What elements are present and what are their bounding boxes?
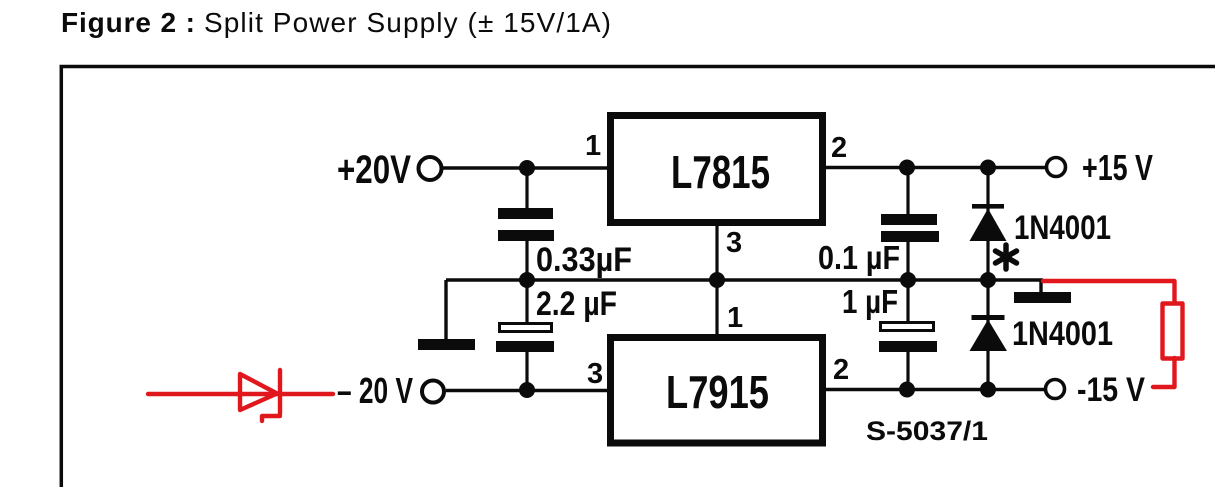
junction C1 / top rail <box>519 160 535 176</box>
wire diode D2 branch <box>986 280 989 390</box>
wire top rail left (+20V to pin 1) <box>443 166 607 169</box>
terminal -15V <box>1046 380 1065 399</box>
red annotation: protection diode symbol at -20V input <box>148 370 333 421</box>
svg-text:2: 2 <box>833 354 849 386</box>
wire C1 branch lower <box>525 241 528 280</box>
regulator U1 L7815 <box>611 116 823 223</box>
svg-text:L7815: L7815 <box>671 146 770 198</box>
ground bar right <box>1014 292 1071 303</box>
terminal +20V <box>419 157 442 180</box>
svg-text:2: 2 <box>831 132 847 164</box>
svg-text:1 µF: 1 µF <box>842 283 898 320</box>
svg-text:1N4001: 1N4001 <box>1012 315 1113 353</box>
capacitor C2 2.2uF polarized <box>496 324 554 353</box>
wire C1 branch upper <box>525 168 528 209</box>
svg-text:0.1 µF: 0.1 µF <box>818 239 900 276</box>
svg-text:2.2 µF: 2.2 µF <box>536 285 617 323</box>
terminal -20V <box>422 381 444 403</box>
svg-text:– 20 V: – 20 V <box>337 370 413 411</box>
wire ground rail left drop <box>444 280 447 340</box>
wire red horizontal <box>148 392 333 396</box>
wire red from ground node to resistor <box>1043 281 1175 302</box>
junction D2 / bottom rail <box>980 382 996 398</box>
diode D2 1N4001 <box>970 315 1008 351</box>
wire C2 branch upper <box>525 280 528 323</box>
wire C2 branch lower <box>525 352 528 390</box>
capacitor C3 0.1uF <box>881 214 939 242</box>
wire bottom rail left (-20V to pin 3) <box>446 389 607 392</box>
wire top rail right (pin 2 to +15V) <box>826 166 1046 169</box>
wire U1 pin 3 down to ground rail <box>715 226 718 280</box>
wire middle ground rail <box>446 278 1043 281</box>
junction C3 / top rail <box>899 160 915 176</box>
ground bar left <box>418 339 475 350</box>
wire C4 branch upper <box>906 280 909 322</box>
capacitor C4 1uF polarized <box>879 323 937 353</box>
wire diode D1 branch <box>986 168 989 281</box>
svg-text:+20V: +20V <box>337 148 411 192</box>
wire C4 branch lower <box>906 352 909 390</box>
svg-text:1: 1 <box>585 130 601 162</box>
diode D3 cathode foot hook <box>262 416 280 421</box>
wire red resistor to -15V <box>1153 358 1175 387</box>
svg-text:1: 1 <box>727 302 743 334</box>
wire C3 branch lower <box>906 242 909 280</box>
regulator U2 L7915 <box>611 338 823 444</box>
svg-text:-15 V: -15 V <box>1077 371 1145 409</box>
wire U2 pin 1 up to ground rail <box>715 280 718 334</box>
asterisk note mark <box>996 245 1017 269</box>
diode D3 cathode bar <box>278 370 282 414</box>
terminal +15V <box>1047 158 1066 177</box>
junction C1-C2 / ground rail <box>519 272 535 288</box>
junction C3-C4 / ground rail <box>900 272 916 288</box>
junction D1 / top rail <box>980 160 996 176</box>
junction C2 / bottom rail <box>519 382 535 398</box>
junction C4 / bottom rail <box>899 382 915 398</box>
svg-text:+15 V: +15 V <box>1082 147 1153 188</box>
wire C3 branch upper <box>906 168 909 216</box>
diode D3 red outline <box>240 374 277 410</box>
junction D1-D2 / ground rail <box>980 272 996 288</box>
resistor R1 red <box>1163 304 1183 359</box>
svg-text:L7915: L7915 <box>666 366 769 418</box>
capacitor C1 0.33uF <box>498 208 554 241</box>
wire stub to right ground bar <box>1039 280 1042 293</box>
diode D1 1N4001 <box>970 204 1007 241</box>
wire bottom rail right (pin 2 to -15V) <box>826 388 1045 391</box>
svg-text:3: 3 <box>587 358 603 390</box>
svg-text:3: 3 <box>726 227 742 259</box>
svg-text:1N4001: 1N4001 <box>1014 209 1111 247</box>
svg-text:Figure 2 :Split Power Supply (: Figure 2 :Split Power Supply (± 15V/1A) <box>61 7 611 38</box>
red annotation: bleed resistor at output <box>1043 281 1183 387</box>
junction U1 pin3 / ground rail <box>709 272 725 288</box>
svg-text:0.33µF: 0.33µF <box>536 241 632 279</box>
svg-text:S-5037/1: S-5037/1 <box>866 416 988 446</box>
